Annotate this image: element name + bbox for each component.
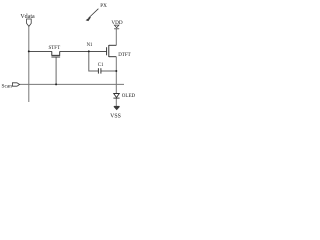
- terminal VDD supply pin: [114, 25, 119, 29]
- wire DTFT source down through cap node to OLED: [115, 57, 117, 94]
- svg-text:C1: C1: [98, 63, 104, 68]
- terminal VSS supply pin: [114, 106, 119, 109]
- wire STFT gate lead down to Scan line: [55, 57, 57, 84]
- svg-text:VSS: VSS: [110, 114, 121, 120]
- wire N1 branch down to capacitor C1: [89, 51, 99, 71]
- node junction dot C1 right on source column: [115, 70, 117, 72]
- node junction dot STFT gate on Scan: [55, 83, 57, 85]
- svg-text:DTFT: DTFT: [118, 53, 131, 58]
- svg-text:STFT: STFT: [48, 46, 60, 51]
- capacitor C1: [98, 68, 101, 73]
- terminal Vdata input pin: [27, 19, 32, 26]
- svg-text:Scan: Scan: [2, 84, 13, 90]
- svg-text:OLED: OLED: [122, 94, 135, 99]
- terminal Scan input pin: [12, 83, 19, 86]
- wire VDD to DTFT drain: [115, 29, 117, 45]
- diode OLED: [113, 94, 119, 99]
- transistor DTFT (driving TFT): [107, 45, 117, 57]
- arrow PX callout: [87, 9, 99, 21]
- node N1 junction dot: [88, 50, 90, 52]
- svg-text:PX: PX: [100, 3, 107, 9]
- wire Vdata junction to STFT source: [29, 50, 52, 52]
- wire OLED cathode to VSS: [115, 98, 117, 106]
- wire capacitor C1 to DTFT source column: [101, 70, 116, 72]
- svg-text:N1: N1: [87, 43, 93, 48]
- wire node N1: STFT drain to DTFT gate: [60, 50, 107, 52]
- wire Vdata vertical data line: [28, 27, 30, 103]
- transistor STFT (switching TFT): [51, 51, 60, 57]
- node junction dot Vdata/STFT: [28, 50, 30, 52]
- wire Scan horizontal line: [20, 83, 125, 85]
